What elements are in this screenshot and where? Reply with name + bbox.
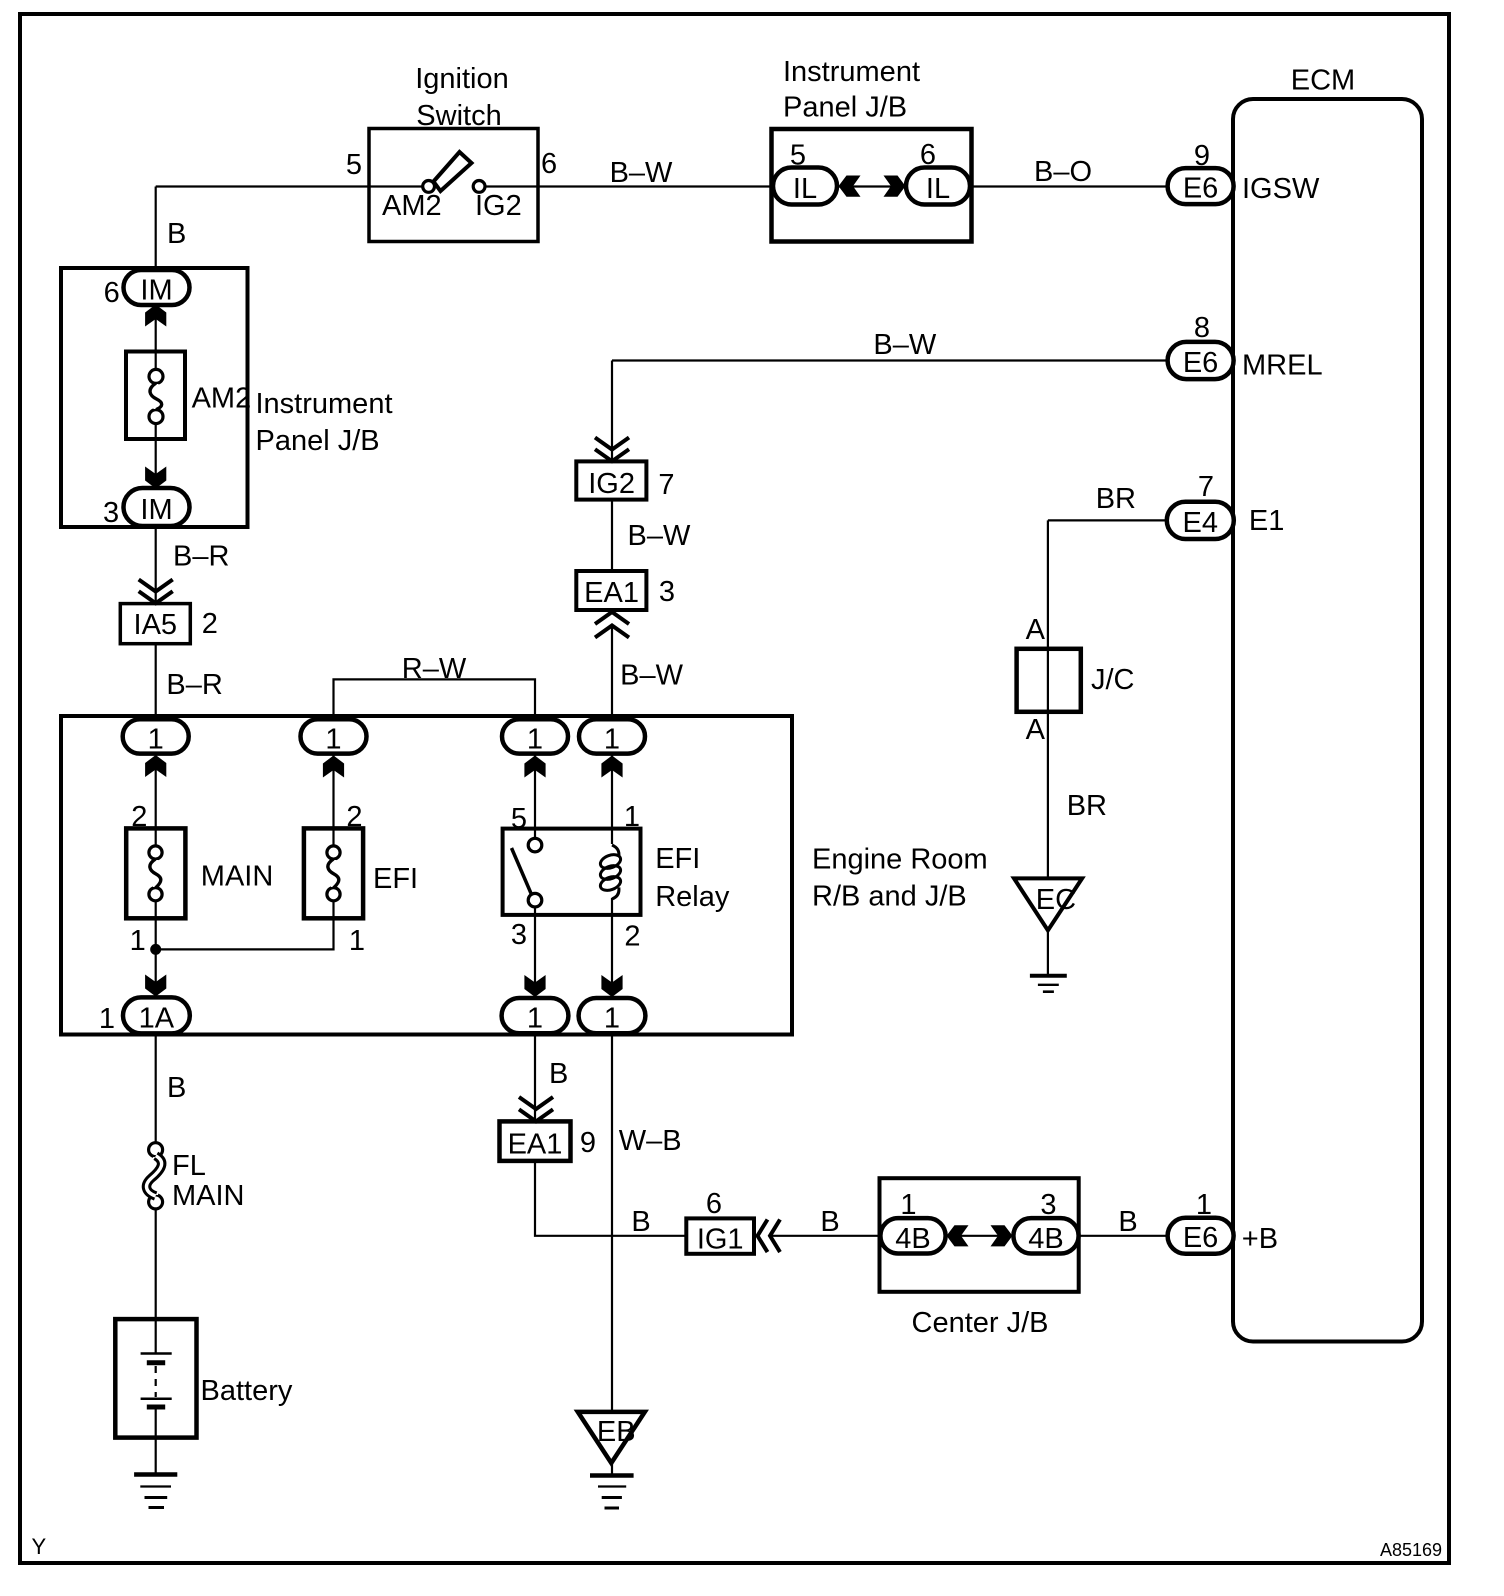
svg-text:6: 6: [920, 139, 936, 171]
svg-text:FL: FL: [172, 1150, 206, 1182]
svg-text:ECM: ECM: [1291, 65, 1355, 97]
svg-text:1: 1: [1196, 1189, 1212, 1221]
svg-text:8: 8: [1194, 312, 1210, 344]
svg-text:1: 1: [148, 724, 164, 756]
svg-text:Battery: Battery: [201, 1375, 293, 1407]
svg-text:B–W: B–W: [628, 520, 691, 552]
svg-text:B: B: [549, 1058, 568, 1090]
svg-text:MAIN: MAIN: [201, 861, 273, 893]
svg-text:+B: +B: [1242, 1223, 1278, 1255]
svg-text:A: A: [1026, 614, 1046, 646]
svg-text:3: 3: [511, 919, 527, 951]
svg-text:B: B: [1118, 1206, 1137, 1238]
svg-text:A: A: [1026, 714, 1046, 746]
svg-text:Engine Room: Engine Room: [812, 844, 988, 876]
svg-text:E6: E6: [1183, 1222, 1218, 1254]
svg-text:3: 3: [103, 497, 119, 529]
svg-text:EC: EC: [1036, 884, 1076, 916]
svg-text:1: 1: [624, 801, 640, 833]
svg-text:Center J/B: Center J/B: [912, 1307, 1049, 1339]
svg-text:EB: EB: [597, 1416, 636, 1448]
svg-text:E6: E6: [1183, 172, 1218, 204]
svg-text:IM: IM: [140, 494, 172, 526]
svg-text:3: 3: [1040, 1189, 1056, 1221]
svg-text:B: B: [820, 1206, 839, 1238]
svg-text:4B: 4B: [1028, 1223, 1063, 1255]
svg-text:1: 1: [604, 1003, 620, 1035]
svg-text:BR: BR: [1096, 483, 1136, 515]
svg-text:6: 6: [541, 148, 557, 180]
svg-text:IG1: IG1: [697, 1224, 744, 1256]
svg-text:1: 1: [130, 925, 146, 957]
svg-text:9: 9: [580, 1127, 596, 1159]
svg-text:6: 6: [706, 1188, 722, 1220]
svg-text:AM2: AM2: [382, 190, 442, 222]
svg-text:1: 1: [325, 724, 341, 756]
svg-text:IL: IL: [793, 173, 817, 205]
svg-text:E4: E4: [1183, 507, 1218, 539]
svg-text:IL: IL: [926, 173, 950, 205]
svg-text:2: 2: [624, 921, 640, 953]
svg-text:B–W: B–W: [610, 157, 673, 189]
svg-text:Y: Y: [32, 1534, 47, 1559]
svg-text:IG2: IG2: [475, 190, 522, 222]
svg-text:Switch: Switch: [416, 100, 501, 132]
svg-text:A85169: A85169: [1380, 1540, 1442, 1560]
svg-text:R/B and J/B: R/B and J/B: [812, 881, 967, 913]
svg-text:Relay: Relay: [655, 881, 730, 913]
svg-text:1A: 1A: [139, 1003, 175, 1035]
svg-text:1: 1: [900, 1189, 916, 1221]
svg-text:Ignition: Ignition: [415, 63, 509, 95]
svg-text:EFI: EFI: [373, 863, 418, 895]
svg-text:IM: IM: [140, 275, 172, 307]
svg-text:Instrument: Instrument: [256, 388, 393, 420]
svg-text:B: B: [167, 218, 186, 250]
svg-text:E1: E1: [1249, 505, 1284, 537]
svg-text:Panel J/B: Panel J/B: [256, 425, 380, 457]
svg-text:3: 3: [659, 576, 675, 608]
svg-text:B: B: [167, 1072, 186, 1104]
svg-text:B–R: B–R: [173, 541, 229, 573]
svg-text:B–W: B–W: [873, 329, 936, 361]
svg-text:5: 5: [511, 803, 527, 835]
svg-text:B–W: B–W: [620, 660, 683, 692]
svg-text:IG2: IG2: [588, 468, 635, 500]
svg-text:5: 5: [790, 140, 806, 172]
svg-text:W–B: W–B: [619, 1125, 682, 1157]
svg-text:E6: E6: [1183, 347, 1218, 379]
svg-text:4B: 4B: [895, 1223, 930, 1255]
svg-text:Instrument: Instrument: [783, 56, 920, 88]
svg-text:J/C: J/C: [1091, 664, 1135, 696]
svg-text:2: 2: [346, 801, 362, 833]
svg-text:B: B: [631, 1206, 650, 1238]
svg-text:B–R: B–R: [166, 669, 222, 701]
svg-text:2: 2: [131, 801, 147, 833]
svg-text:R–W: R–W: [402, 653, 467, 685]
svg-text:7: 7: [658, 469, 674, 501]
svg-text:EA1: EA1: [508, 1129, 563, 1161]
svg-text:BR: BR: [1067, 790, 1107, 822]
svg-text:MREL: MREL: [1242, 350, 1323, 382]
svg-text:AM2: AM2: [192, 382, 252, 414]
svg-text:1: 1: [99, 1003, 115, 1035]
svg-text:IGSW: IGSW: [1242, 173, 1320, 205]
svg-text:B–O: B–O: [1034, 156, 1092, 188]
svg-text:1: 1: [349, 925, 365, 957]
svg-text:IA5: IA5: [134, 609, 178, 641]
svg-text:Panel J/B: Panel J/B: [783, 92, 907, 124]
svg-text:EA1: EA1: [584, 577, 639, 609]
svg-text:6: 6: [104, 277, 120, 309]
svg-text:7: 7: [1198, 471, 1214, 503]
svg-text:2: 2: [202, 608, 218, 640]
svg-text:1: 1: [527, 1003, 543, 1035]
svg-text:MAIN: MAIN: [172, 1180, 245, 1212]
svg-text:EFI: EFI: [655, 843, 700, 875]
svg-text:9: 9: [1194, 140, 1210, 172]
svg-text:1: 1: [527, 724, 543, 756]
svg-text:1: 1: [604, 724, 620, 756]
svg-text:5: 5: [346, 149, 362, 181]
